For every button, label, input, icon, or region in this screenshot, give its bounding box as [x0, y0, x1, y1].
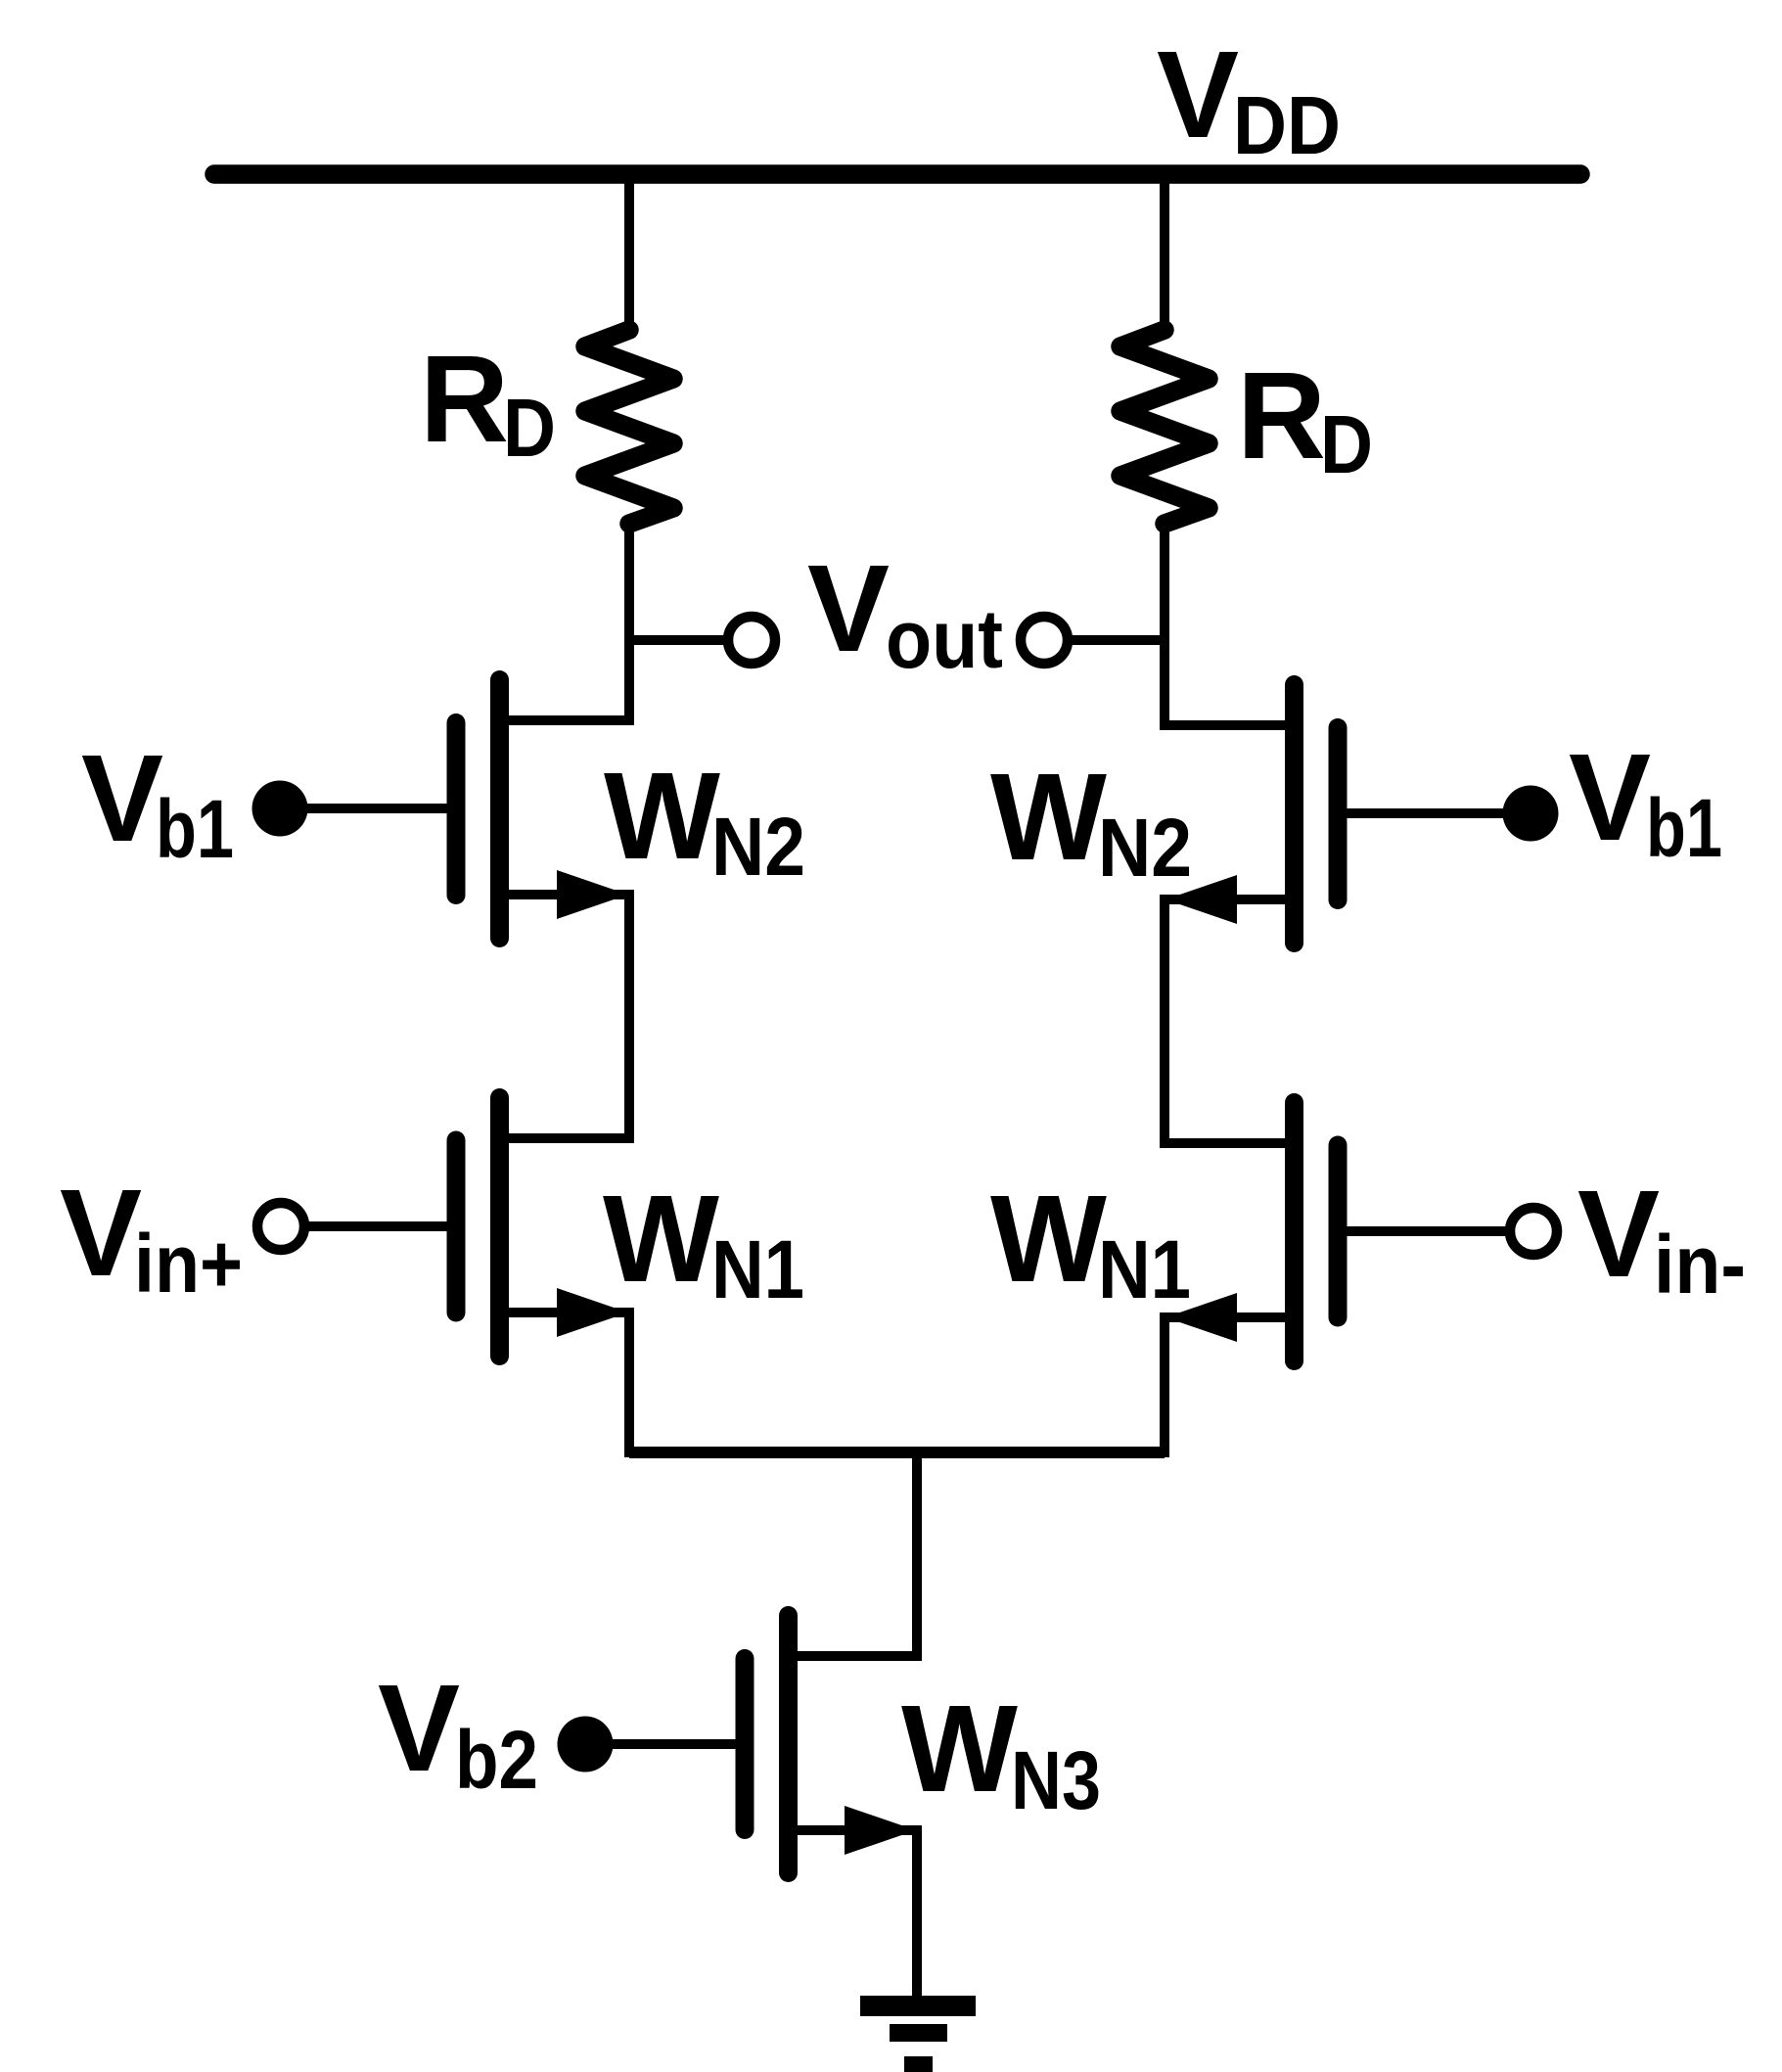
wire left branch: resistor to WN2 left drain [501, 520, 629, 720]
transistor WN1 left: channel bar [490, 1098, 509, 1357]
svg-text:N2: N2 [1098, 802, 1192, 894]
transistor WN1 left: gate bar [447, 1140, 466, 1312]
wire WN1 left source to tail node [501, 1312, 629, 1457]
svg-text:b2: b2 [455, 1714, 538, 1806]
transistor WN2 right: channel bar [1285, 685, 1303, 944]
wire right branch: resistor to WN2 right drain [1165, 520, 1298, 725]
svg-text:N1: N1 [1098, 1223, 1191, 1315]
wire gate lead Vin+ to WN1 left [306, 1221, 456, 1231]
svg-text:DD: DD [1233, 79, 1341, 171]
transistor WN1 right: channel bar [1285, 1103, 1303, 1361]
svg-text:V: V [1569, 728, 1651, 866]
transistor WN3: gate bar [736, 1659, 754, 1830]
svg-text:N1: N1 [711, 1223, 804, 1315]
wire gate lead Vb1 right to WN2 right [1338, 808, 1531, 818]
wire WN1 right source to tail node [1165, 1317, 1298, 1457]
svg-text:V: V [378, 1659, 460, 1797]
svg-text:N3: N3 [1011, 1734, 1101, 1826]
svg-text:W: W [990, 748, 1107, 886]
node Vb2 terminal dot [558, 1717, 614, 1773]
node Vb1 left terminal dot [252, 781, 308, 837]
wire tail node to WN3 drain [791, 1452, 917, 1656]
svg-text:out: out [886, 593, 1003, 685]
node Vout circle right [1021, 617, 1068, 664]
svg-text:V: V [807, 539, 890, 677]
node Vin- terminal circle [1510, 1208, 1557, 1255]
transistor WN1 right: gate bar [1329, 1145, 1348, 1317]
ground [860, 1996, 976, 2072]
svg-text:in-: in- [1654, 1219, 1746, 1311]
transistor WN2 left: gate bar [447, 723, 466, 896]
resistor RD (right) [1120, 330, 1209, 524]
wire WN2 right source to WN1 right drain [1165, 899, 1298, 1143]
svg-text:W: W [603, 1170, 719, 1308]
wire left branch: rail to resistor RD left [624, 168, 634, 333]
svg-text:V: V [60, 1164, 142, 1302]
svg-text:W: W [990, 1170, 1107, 1308]
svg-text:in+: in+ [134, 1218, 243, 1310]
svg-text:D: D [503, 382, 556, 474]
svg-text:N2: N2 [711, 801, 805, 893]
wire VDD rail [214, 164, 1580, 184]
wire tail node horizontal [629, 1447, 1165, 1458]
wire gate lead Vin- to WN1 right [1338, 1226, 1508, 1236]
transistor WN2 left: source arrow [557, 870, 628, 919]
transistor WN2 left: channel bar [490, 680, 509, 939]
svg-text:V: V [1577, 1165, 1660, 1303]
wire WN3 source to ground [791, 1830, 917, 2001]
transistor WN1 right: source arrow [1165, 1293, 1237, 1342]
wire Vout tap left [629, 635, 725, 645]
svg-text:W: W [901, 1680, 1018, 1818]
transistor WN2 right: source arrow [1165, 875, 1237, 924]
transistor WN3: channel bar [779, 1616, 798, 1873]
svg-text:R: R [1237, 346, 1326, 484]
svg-text:V: V [81, 729, 163, 867]
svg-text:R: R [420, 330, 509, 468]
wire right branch: rail to resistor RD right [1160, 168, 1169, 333]
wire gate lead Vb1 left to WN2 left [280, 804, 456, 813]
transistor WN1 left: source arrow [557, 1288, 628, 1337]
svg-text:D: D [1320, 398, 1373, 490]
node Vout circle left [728, 617, 775, 664]
wire Vout tap right [1071, 635, 1165, 645]
svg-text:b1: b1 [156, 783, 234, 875]
wire gate lead Vb2 to WN3 [585, 1739, 745, 1749]
svg-text:b1: b1 [1646, 782, 1722, 874]
resistor RD (left) [585, 330, 673, 524]
transistor WN3: source arrow [845, 1806, 916, 1855]
node Vb1 right terminal dot [1503, 786, 1559, 842]
svg-text:V: V [1157, 25, 1239, 163]
node Vin+ terminal circle [257, 1203, 304, 1250]
svg-text:W: W [604, 747, 720, 885]
wire WN2 left source to WN1 left drain [501, 895, 629, 1138]
transistor WN2 right: gate bar [1329, 728, 1348, 900]
